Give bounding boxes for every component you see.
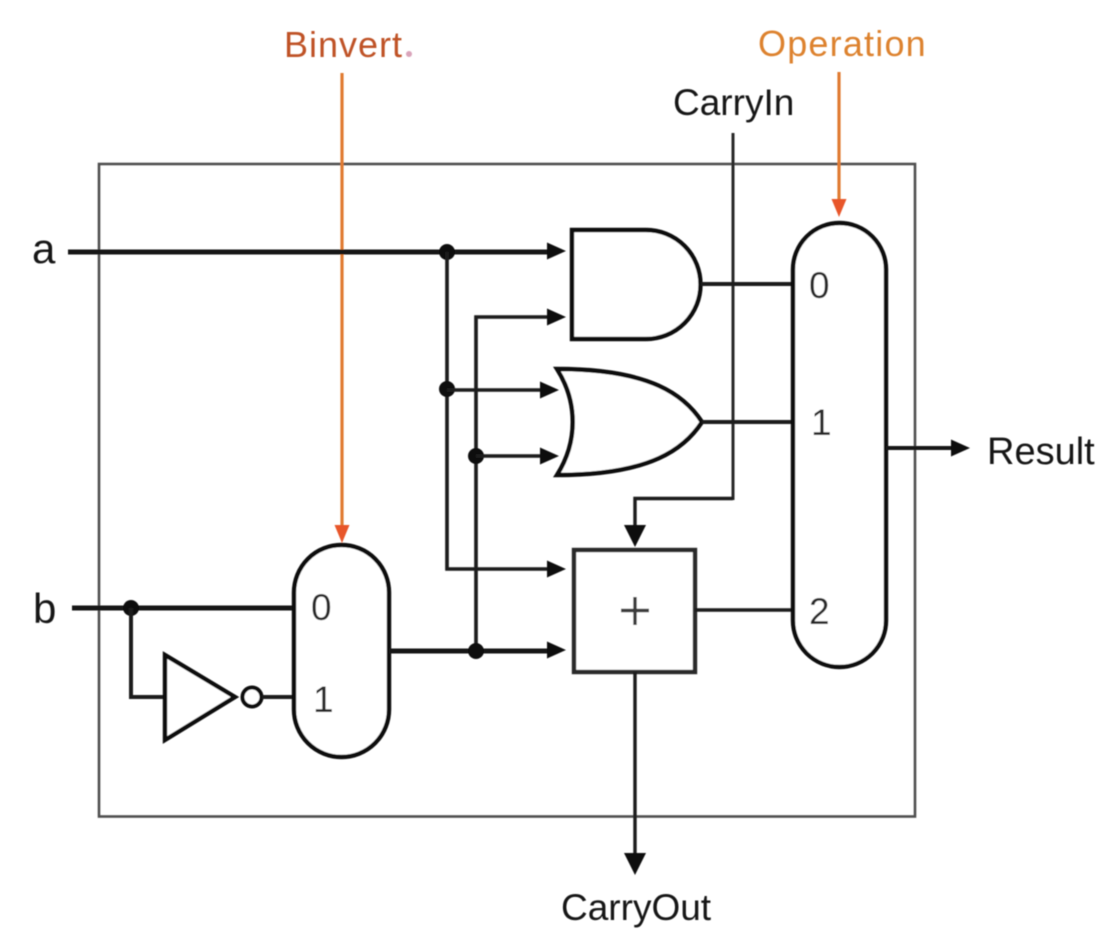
AND gate — [572, 230, 701, 339]
CarryIn elbow wire to adder — [635, 499, 733, 529]
wire node B to OR gate input 2 — [476, 454, 543, 458]
arrowhead into OR input 1 — [540, 382, 559, 399]
svg-text:0: 0 — [809, 265, 830, 306]
svg-text:Binvert: Binvert — [284, 24, 403, 65]
mux3 Operation multiplexer — [793, 223, 886, 667]
Binvert arrowhead — [335, 525, 350, 543]
CarryIn arrowhead into adder — [624, 525, 646, 547]
svg-text:Result: Result — [987, 431, 1095, 473]
wire inverter to mux — [262, 695, 294, 699]
OR gate output wire — [702, 420, 793, 424]
Result output wire — [886, 446, 954, 450]
arrowhead into OR input 2 — [540, 448, 559, 465]
arrowhead a into AND — [547, 243, 566, 260]
arrowhead into adder input 1 — [547, 561, 566, 578]
adder output wire — [695, 608, 793, 611]
svg-text:Operation: Operation — [758, 23, 927, 64]
Result arrowhead — [951, 440, 970, 457]
CarryOut arrowhead — [624, 853, 646, 875]
enclosing box — [99, 164, 915, 817]
AND gate output wire — [701, 282, 793, 286]
svg-text:0: 0 — [311, 587, 332, 628]
arrowhead into AND input 2 — [547, 309, 566, 326]
wire vertical A (a branch down) — [447, 252, 550, 569]
mux2 output wire — [389, 649, 550, 654]
node B to OR input 2 — [468, 448, 484, 464]
svg-text:1: 1 — [313, 679, 334, 720]
svg-text:1: 1 — [811, 402, 832, 443]
adder plus sign — [621, 597, 649, 625]
wire vertical B (b-mux branch up) — [476, 317, 550, 651]
CarryIn vertical wire — [732, 133, 735, 500]
inverter bubble — [243, 688, 262, 707]
wire node A to OR gate input 1 — [447, 388, 543, 392]
wire a — [68, 250, 550, 255]
svg-text:CarryIn: CarryIn — [673, 82, 794, 123]
OR gate — [557, 369, 702, 475]
CarryOut wire — [633, 672, 636, 856]
svg-text:a: a — [32, 225, 56, 272]
node on mux2 output — [468, 643, 484, 659]
Operation arrowhead — [832, 199, 847, 217]
svg-text:CarryOut: CarryOut — [561, 887, 712, 928]
Operation control wire — [837, 72, 840, 203]
adder box — [574, 550, 695, 672]
wire b — [72, 606, 294, 611]
node on wire b — [123, 600, 139, 616]
svg-text:2: 2 — [809, 591, 830, 632]
mux2 Binvert multiplexer — [294, 545, 389, 757]
wire b branch down to inverter — [131, 608, 165, 697]
arrowhead into adder input 2 — [547, 642, 566, 659]
scan speck after Binvert — [406, 51, 412, 57]
Binvert control wire — [340, 73, 343, 530]
inverter triangle — [165, 655, 235, 740]
svg-text:b: b — [33, 585, 56, 632]
node A to OR input 1 — [439, 381, 455, 397]
node on wire a — [439, 244, 455, 260]
